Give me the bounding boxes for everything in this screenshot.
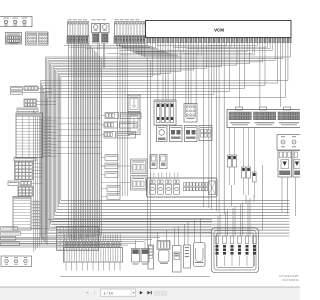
wire bundle: comb lower tails [66,262,120,271]
wire pair: centre drop x147-151 [148,58,151,247]
connector CN2 [24,99,56,107]
wire: long bottom run [60,276,210,278]
solenoid SV1 (bottom centre) [148,245,154,269]
connector grid CN3 [15,162,44,180]
relay sockets (mid small label boxes) [101,155,120,200]
terminal comb strip X1 [64,242,123,263]
sensor connector RC1 [228,155,237,185]
switch box SB1 (mid right) [101,159,147,174]
VCM pin row [147,38,291,43]
connector CN22 (round pin) [184,104,197,123]
lamp box (right) [277,135,302,151]
wire pairs to options row 2 [101,122,137,128]
wire bundle: main left vertical bus [75,44,101,241]
wire bundle: remaining VCM pins short stubs left (wedge) [64,43,273,55]
mini switch boxes (pair) [150,155,167,169]
svg-text:VCM WIRING: VCM WIRING [282,278,299,282]
toolbar last-page button [147,291,151,294]
connector grid CN4 [18,187,33,197]
wire bundle: lower horizontal bus extra lines [0,238,160,248]
sensor connector RC2 [242,167,251,195]
wire bundle: comb feeder drops [65,234,121,242]
relay RB2 (bottom) [141,240,149,265]
small boxes row [8,181,43,185]
harness bank B (vertical wire strip) [114,22,146,44]
wire bundle: left secondary vertical bus [34,110,42,252]
label plate 2 [14,158,36,161]
toolbar disabled buttons [155,291,167,295]
junction table J1 (left big connector table) [16,113,101,158]
wire pairs to options row 3 [101,132,136,139]
toolbar page input [101,289,136,296]
multi-connector assembly (bottom right) [212,228,259,273]
fuse panel bank (right, long connector) [227,107,301,128]
connector grid (bottom-left pin block) [57,227,99,251]
wire stubs above option row [151,173,178,179]
title text [279,274,298,282]
sync switch S2 [128,113,140,135]
wire bundle: lower horizontal bus mid lines [48,219,212,232]
lamp panel (bottom-left, 3 round) [1,256,32,267]
component row: flasher [170,126,183,142]
wire bundle: fan-out from bank B to bus [117,44,182,58]
component row: buzzer [185,126,198,142]
wire bundle: right-mid component stems [232,165,296,230]
capacitor (bottom) [194,243,206,267]
switch box SB2 (mid right) [101,176,147,191]
label plate [17,108,38,112]
wire bundle: short VCM drops to mid connectors [158,43,280,214]
option connector row (rounded strip) [147,178,218,197]
wire bundle: mid verticals x117-128 [118,44,128,197]
sensor body (bottom) [173,246,182,273]
relay K2 [101,24,110,44]
connector table J2 (tall lower-left) [13,197,42,231]
VCM controller U1 [146,21,292,38]
connector box P1 (top-left lamps) [0,17,32,27]
component row: resistor pack [199,126,212,141]
wire bank labels (top) [68,18,140,21]
harness bank A (vertical wire strip) [67,22,89,44]
switch SW1 row [11,86,53,94]
level sensor (bottom) [184,245,191,268]
wire bundle: bank A tail wires [69,44,74,241]
wire bundle: secondary horizontals y80-97 [41,43,288,245]
sensor connector RC3 [253,172,257,198]
wire bundle: VCM outputs turning left (upper corner bundle) [46,43,291,236]
connector CN102 (twin round-pin plugs) [26,32,49,45]
relay RB1 (bottom) [132,240,140,265]
toolbar next-page button [140,291,143,294]
svg-text:VCM: VCM [214,28,224,33]
wire: bank to RC connectors [230,128,255,173]
svg-text:1 / 14: 1 / 14 [103,291,113,295]
viewer toolbar [0,287,300,300]
wire: relay K1/K2 tails [98,43,105,239]
wire pairs to options row 1 [101,113,141,119]
bottom-left label rows [1,227,57,246]
wire bundle: lower bus drops to bottom components [158,198,251,246]
sync switch S1 [128,95,140,112]
diode module D1 [278,151,292,178]
svg-text:1FV/1FE PS/PD: 1FV/1FE PS/PD [279,274,298,278]
connector CN21 (centre, 4-strip) [154,100,176,125]
diode module D2 [293,151,302,178]
pump motor M1 [157,241,170,264]
connector CN101 [6,33,22,45]
component row: horn [157,126,168,142]
relay K1 [92,24,101,44]
